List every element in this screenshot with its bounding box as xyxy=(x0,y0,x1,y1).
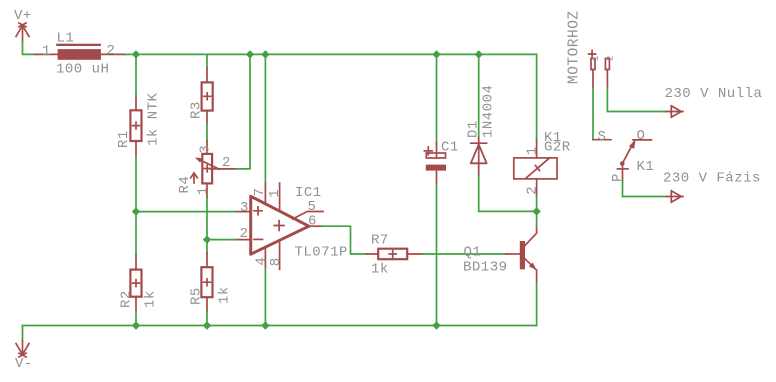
wire node A to IC1 pin 3 xyxy=(136,211,236,213)
junction node at D1 xyxy=(475,50,483,58)
svg-text:R5: R5 xyxy=(189,287,205,305)
svg-text:BD139: BD139 xyxy=(463,259,508,275)
junction node B xyxy=(203,235,211,243)
resistor R3 xyxy=(202,68,213,123)
svg-text:R7: R7 xyxy=(371,233,389,249)
svg-text:R4: R4 xyxy=(177,176,193,194)
capacitor C1 xyxy=(424,142,446,183)
junction bottom R5 xyxy=(203,321,211,329)
wire rail to D1 xyxy=(478,54,480,137)
wire V+ to L1 pin 1 xyxy=(23,41,36,54)
svg-text:G2R: G2R xyxy=(544,140,571,156)
wire R2 to bottom rail xyxy=(135,311,137,326)
relay contact K1: arm xyxy=(617,140,635,182)
diode D1 xyxy=(471,137,487,176)
svg-text:3: 3 xyxy=(240,200,249,216)
wire rail to R1 xyxy=(135,54,137,96)
relay contact K1: O terminal xyxy=(633,139,652,141)
op-amp IC1 xyxy=(236,183,323,269)
svg-text:K1: K1 xyxy=(637,159,655,175)
resistor R1 xyxy=(130,96,141,156)
wire Q1 emitter to bottom rail xyxy=(536,283,538,326)
relay coil K1 xyxy=(514,140,557,196)
wire node B to R5 xyxy=(206,240,208,253)
svg-text:8: 8 xyxy=(268,257,284,266)
wire C1 to bottom rail xyxy=(436,184,438,326)
connector pin 2 xyxy=(605,59,609,70)
wire R3 to R4 xyxy=(206,124,208,141)
svg-text:TL071P: TL071P xyxy=(295,244,348,260)
wire rail to IC1 pin 7 xyxy=(264,54,266,183)
svg-text:3: 3 xyxy=(198,145,214,154)
wire IC1 output to R7 xyxy=(322,226,367,254)
connector pin 1 xyxy=(591,59,595,70)
power symbol V+ xyxy=(16,23,29,41)
svg-text:1: 1 xyxy=(525,146,541,155)
wire K1 pin 2 to node C xyxy=(536,196,538,212)
V+ rail wire xyxy=(136,53,537,55)
junction node at IC1 pin 7 xyxy=(261,50,269,58)
arrow 230 V Fazis xyxy=(667,191,684,203)
svg-text:L1: L1 xyxy=(57,31,75,47)
wire rail to R3 xyxy=(206,54,208,68)
svg-text:1k: 1k xyxy=(217,286,233,304)
svg-text:230 V Fázis: 230 V Fázis xyxy=(663,171,761,187)
wire connector pin 2 down to arrow xyxy=(606,70,608,88)
wire bottom rail to V- xyxy=(22,326,24,342)
trimmer R4 xyxy=(191,141,237,198)
wire rail to C1 xyxy=(436,54,438,142)
connector polarity + xyxy=(589,51,596,58)
svg-text:5: 5 xyxy=(308,199,317,215)
wire D1 to node C xyxy=(479,176,537,211)
junction node A xyxy=(132,207,140,215)
svg-text:2: 2 xyxy=(222,155,231,171)
wire node A to R2 xyxy=(135,212,137,256)
svg-text:1: 1 xyxy=(42,44,51,60)
svg-text:D1: D1 xyxy=(465,120,481,138)
wire connector pin 1 down xyxy=(592,70,594,88)
svg-text:V-: V- xyxy=(15,356,33,372)
svg-text:V+: V+ xyxy=(14,8,32,24)
power symbol V- xyxy=(16,341,29,357)
wire R7 to Q1 base xyxy=(422,253,506,255)
resistor R7 xyxy=(367,249,423,260)
inductor L1 xyxy=(36,44,125,60)
svg-text:2: 2 xyxy=(240,226,249,242)
junction bottom C1 xyxy=(432,321,440,329)
svg-text:S: S xyxy=(598,129,607,145)
svg-text:2: 2 xyxy=(605,56,615,61)
svg-text:C1: C1 xyxy=(441,140,459,156)
arrow 230 V Nulla xyxy=(667,106,684,118)
transistor Q1 xyxy=(506,228,536,283)
svg-text:1k: 1k xyxy=(142,290,158,308)
wire contact P to arrow xyxy=(623,182,667,197)
svg-text:Q1: Q1 xyxy=(464,245,482,261)
svg-text:R3: R3 xyxy=(189,101,205,119)
junction node at R4 wiper riser xyxy=(246,50,254,58)
wire IC1 pin 4 to bottom rail xyxy=(264,268,266,326)
svg-text:7: 7 xyxy=(252,188,268,197)
svg-text:2: 2 xyxy=(524,186,540,195)
junction node at L1/R1 xyxy=(132,50,140,58)
svg-text:230 V Nulla: 230 V Nulla xyxy=(665,86,763,102)
svg-text:1k: 1k xyxy=(371,262,389,278)
relay contact K1: S terminal xyxy=(593,139,611,141)
junction bottom R2 xyxy=(132,321,140,329)
resistor R5 xyxy=(201,253,212,311)
svg-text:4: 4 xyxy=(253,257,269,266)
resistor R2 xyxy=(130,255,141,311)
svg-text:1k NTK: 1k NTK xyxy=(146,92,162,146)
svg-text:2: 2 xyxy=(107,43,116,59)
svg-text:100 uH: 100 uH xyxy=(56,62,109,78)
svg-text:P: P xyxy=(610,173,626,182)
svg-text:1: 1 xyxy=(591,56,601,61)
wire node C to Q1 collector xyxy=(536,211,538,228)
svg-text:MOTORHOZ: MOTORHOZ xyxy=(567,10,583,84)
svg-text:R2: R2 xyxy=(118,290,134,308)
svg-text:6: 6 xyxy=(308,214,317,230)
wire R5 to bottom rail xyxy=(206,311,208,326)
bottom rail wire V- xyxy=(23,325,537,327)
svg-text:1: 1 xyxy=(195,186,211,195)
wire node B to IC1 pin 2 xyxy=(207,239,237,241)
junction node at C1 xyxy=(432,50,440,58)
junction bottom IC1 pin 4 xyxy=(261,321,269,329)
wire rail down to K1 coil xyxy=(536,54,538,139)
svg-text:O: O xyxy=(637,128,646,144)
wire R1 to node A xyxy=(135,156,137,212)
svg-text:R1: R1 xyxy=(116,130,132,148)
wire L1 to V+ rail xyxy=(125,53,136,55)
svg-text:1: 1 xyxy=(267,189,283,198)
svg-text:1N4004: 1N4004 xyxy=(481,85,497,138)
wire R4 wiper to rail riser xyxy=(237,54,251,168)
junction node C xyxy=(532,207,540,215)
wire R4 to node B xyxy=(206,198,208,240)
